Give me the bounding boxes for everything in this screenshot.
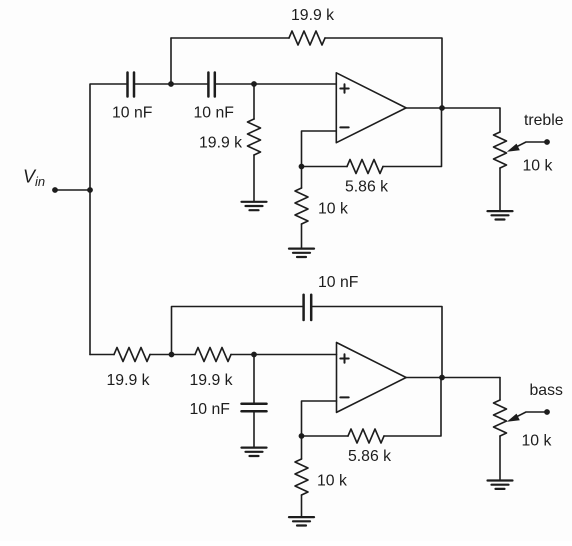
wire U1 output: [406, 107, 500, 109]
resistor R3 5.86 k: [347, 160, 383, 174]
wire Vin stub: [55, 189, 90, 191]
wire node C to R3: [302, 166, 348, 168]
wire output to treble pot: [499, 108, 501, 132]
capacitor C4 10 nF feedback: [304, 295, 312, 320]
node B junction: [251, 81, 257, 87]
wire bottom bus corner to R5: [90, 354, 114, 356]
svg-text:19.9 k: 19.9 k: [199, 135, 242, 152]
resistor R1 19.9 k feedback: [289, 31, 325, 45]
ground G2: [289, 249, 314, 257]
svg-text:5.86 k: 5.86 k: [348, 448, 391, 465]
resistor R4 10 k: [295, 188, 308, 224]
wire U1 inverting input: [302, 131, 337, 167]
wire R8 to ground: [301, 495, 303, 517]
svg-text:bass: bass: [530, 382, 563, 399]
wire U2 inverting input: [302, 401, 337, 436]
wire P1 wiper: [514, 142, 548, 148]
capacitor C2 10 nF: [208, 73, 214, 97]
node U1 output junction: [439, 105, 445, 111]
ground G1: [242, 202, 267, 210]
ground G6: [488, 481, 513, 489]
wire node E down to C3: [253, 355, 255, 403]
ground G4: [242, 448, 267, 456]
wire U2 output: [406, 377, 500, 379]
wire node F down to R8: [301, 436, 303, 459]
wire R2 to ground: [253, 155, 255, 202]
potentiometer P2 bass 10 k: [494, 400, 507, 436]
op-amp U1 plus pin mark: [340, 84, 348, 92]
wire R5 to node D: [150, 354, 195, 356]
wire feedback right segment: [325, 38, 442, 108]
svg-text:10 nF: 10 nF: [318, 274, 359, 291]
resistor R8 10 k: [295, 459, 308, 495]
wire R6 to op-amp + input: [231, 354, 337, 356]
resistor R7 5.86 k: [348, 429, 384, 443]
wire node C down to R4: [301, 167, 303, 189]
wire P2 to ground: [499, 436, 501, 480]
node D junction: [169, 352, 175, 358]
P1 wiper arrowhead: [507, 144, 520, 152]
wire P2 wiper: [514, 412, 548, 418]
node U2 output junction: [439, 375, 445, 381]
wire node F to R7: [302, 435, 349, 437]
op-amp U1: [336, 73, 406, 143]
wire node A up to feedback: [170, 38, 172, 84]
node E junction: [251, 352, 257, 358]
capacitor C3 10 nF shunt: [242, 404, 267, 411]
svg-text:5.86 k: 5.86 k: [345, 179, 388, 196]
svg-text:19.9 k: 19.9 k: [291, 7, 334, 24]
svg-text:10 nF: 10 nF: [194, 105, 235, 122]
node P1 wiper terminal: [544, 139, 550, 145]
op-amp U2: [337, 343, 407, 413]
svg-text:Vin: Vin: [23, 167, 45, 190]
svg-text:10 nF: 10 nF: [112, 105, 153, 122]
node Vin bus junction: [87, 187, 93, 193]
wire R3 to output: [383, 108, 442, 167]
potentiometer P1 treble 10 k: [494, 132, 507, 168]
node Vin input terminal: [52, 187, 58, 193]
svg-text:10 k: 10 k: [318, 201, 348, 218]
svg-text:10 nF: 10 nF: [190, 401, 231, 418]
svg-text:19.9 k: 19.9 k: [107, 372, 150, 389]
svg-text:10 k: 10 k: [317, 473, 347, 490]
node A junction: [168, 81, 174, 87]
resistor R6 19.9 k: [195, 348, 231, 362]
node C inverting node: [299, 164, 305, 170]
op-amp U2 plus pin mark: [340, 354, 348, 362]
svg-text:10 k: 10 k: [523, 158, 553, 175]
P2 wiper arrowhead: [507, 414, 520, 422]
node P2 wiper terminal: [544, 409, 550, 415]
wire P1 to ground: [499, 168, 501, 211]
wire feedback left segment: [171, 37, 289, 39]
op-amp U1 minus pin mark: [340, 126, 348, 128]
ground G5: [289, 517, 314, 525]
resistor R5 19.9 k: [114, 348, 150, 362]
wire node D up to C4 feedback: [172, 307, 303, 355]
node F inverting node: [299, 433, 305, 439]
wire R7 to output: [384, 378, 441, 437]
svg-text:19.9 k: 19.9 k: [190, 372, 233, 389]
wire C2 to op-amp + input: [216, 83, 336, 85]
wire output to bass pot: [499, 378, 501, 401]
wire R4 to ground: [301, 224, 303, 248]
wire C4 to bottom output: [313, 307, 443, 378]
wire C1 to node A: [135, 83, 207, 85]
resistor R2 19.9 k shunt: [248, 119, 261, 155]
capacitor C1 10 nF: [128, 73, 135, 97]
wire C3 to ground: [253, 412, 255, 447]
ground G3: [488, 211, 513, 219]
op-amp U2 minus pin mark: [340, 396, 348, 398]
svg-text:treble: treble: [524, 112, 564, 129]
wire node B down to R2: [253, 84, 255, 119]
wire input bus vertical: [90, 84, 126, 355]
svg-text:10 k: 10 k: [522, 433, 552, 450]
